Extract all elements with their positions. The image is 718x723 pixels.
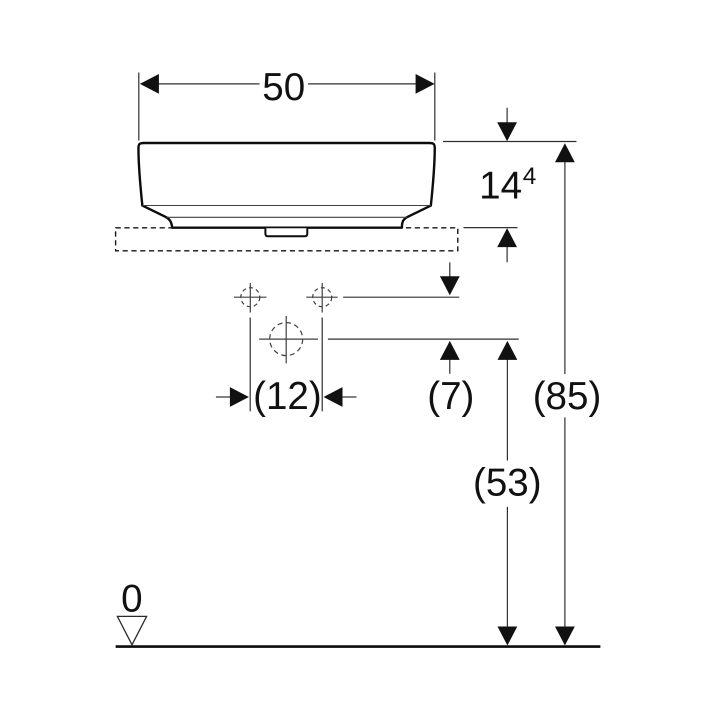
svg-text:(53): (53) [473, 462, 542, 505]
svg-text:0: 0 [121, 578, 142, 621]
svg-text:14: 14 [479, 164, 522, 207]
svg-text:(85): (85) [533, 375, 602, 418]
svg-text:(12): (12) [253, 375, 322, 418]
svg-text:4: 4 [523, 163, 537, 190]
svg-text:50: 50 [262, 66, 305, 109]
svg-text:(7): (7) [427, 375, 474, 418]
